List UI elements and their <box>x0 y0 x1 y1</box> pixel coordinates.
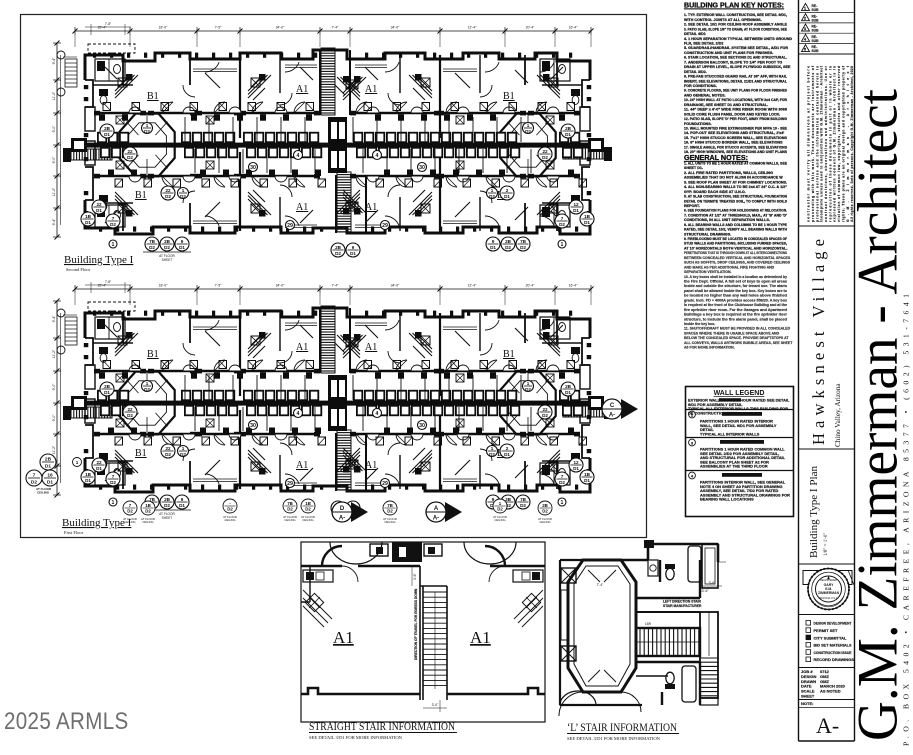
wing corner room partitions <box>95 317 125 339</box>
wing bath fixtures <box>99 347 108 354</box>
svg-text:2: 2 <box>506 188 509 193</box>
svg-text:9'-4": 9'-4" <box>52 315 56 323</box>
building plan: first floor <box>52 280 612 520</box>
svg-text:7B: 7B <box>520 239 527 244</box>
revision triangle 2 <box>802 14 810 21</box>
svg-text:D2: D2 <box>525 129 531 134</box>
svg-text:7. CONDITION AT 1/2" AT THRESH: 7. CONDITION AT 1/2" AT THRESHOLD, MAX.,… <box>684 213 787 217</box>
svg-text:D2: D2 <box>505 245 511 250</box>
svg-text:D2: D2 <box>110 222 116 227</box>
room: right wing octagonal foyer <box>500 372 555 435</box>
stair: right entry porch steps <box>563 406 604 417</box>
wall: A1 interior partitions <box>279 55 281 93</box>
tub lower <box>682 666 696 702</box>
svg-text:2B: 2B <box>45 457 52 463</box>
right kitchen <box>514 590 543 627</box>
svg-text:7. ANDERSON BALCONY, SLOPE TO: 7. ANDERSON BALCONY, SLOPE TO 1/4" PER F… <box>684 60 782 64</box>
svg-text:9. CONCRETE FLOORS, SEE UNIT P: 9. CONCRETE FLOORS, SEE UNIT PLANS FOR F… <box>684 89 787 93</box>
svg-text:STRUCTURAL DRAWINGS.: STRUCTURAL DRAWINGS. <box>684 232 731 236</box>
entry door arcs bottom <box>559 692 583 716</box>
svg-text:D2: D2 <box>164 503 170 508</box>
svg-text:incomplete unless used in conj: incomplete unless used in conjunction wi… <box>820 65 824 222</box>
svg-text:D1: D1 <box>565 132 571 137</box>
svg-text:1: 1 <box>146 123 149 128</box>
svg-text:CEILING: CEILING <box>494 518 505 522</box>
svg-text:structure, to include the fire: structure, to include the fire alarm pan… <box>684 317 787 321</box>
svg-text:11'-2": 11'-2" <box>52 349 56 358</box>
callout bubbles below left wing <box>145 237 159 251</box>
svg-text:AND GENERAL NOTES.: AND GENERAL NOTES. <box>684 93 726 97</box>
svg-text:A1: A1 <box>296 342 308 353</box>
svg-text:D2: D2 <box>287 507 293 512</box>
svg-text:D1: D1 <box>85 220 91 225</box>
wing bath fixtures <box>99 89 108 96</box>
stair: central lower ladder <box>337 172 351 232</box>
svg-text:Building Type I Plan: Building Type I Plan <box>808 465 820 558</box>
svg-text:SUB: SUB <box>812 8 820 12</box>
svg-text:D2: D2 <box>165 452 171 457</box>
left kitchen <box>303 590 332 627</box>
svg-text:18'-0": 18'-0" <box>159 284 168 288</box>
svg-text:PERMIT SET: PERMIT SET <box>814 628 839 633</box>
svg-text:panel shall be allowed inside: panel shall be allowed inside the key bo… <box>684 289 787 293</box>
fixtures: bath/laundry cores lower row <box>100 147 110 158</box>
svg-text:1B: 1B <box>145 503 151 508</box>
closet X boxes left <box>561 568 576 583</box>
svg-text:CEILING: CEILING <box>37 491 50 495</box>
wall: lower core band <box>97 433 143 436</box>
svg-text:9'-0": 9'-0" <box>52 125 56 133</box>
copyright fine print (rotated) <box>807 65 855 222</box>
porch end caps <box>63 148 71 162</box>
svg-text:D2: D2 <box>145 509 151 514</box>
svg-text:1: 1 <box>182 446 185 451</box>
svg-text:4: 4 <box>297 153 300 159</box>
svg-text:CEILING: CEILING <box>284 518 295 522</box>
svg-text:B1: B1 <box>503 349 515 360</box>
svg-text:D2: D2 <box>542 509 548 514</box>
interior arcs <box>342 566 358 582</box>
hatch marks small (X) <box>206 374 214 382</box>
svg-text:RATED, SEE DETAIL 10/2, VERIFY: RATED, SEE DETAIL 10/2, VERIFY ALL BEARI… <box>684 228 787 232</box>
svg-text:2. ALL FIRE RATED PARTITIONS,: 2. ALL FIRE RATED PARTITIONS, WALLS, CEI… <box>684 171 773 175</box>
svg-text:SUCH AS SOFFITS, DROP CEILINGS: SUCH AS SOFFITS, DROP CEILINGS, AND COVE… <box>684 261 791 265</box>
svg-text:D2: D2 <box>542 413 548 418</box>
svg-text:6. SEE FOUNDATION PLANS FOR HO: 6. SEE FOUNDATION PLANS FOR HOLDDOWNS AT… <box>684 209 787 213</box>
callout bubbles below right wing <box>516 237 530 251</box>
svg-text:11. SHUTOFF/DRAFT MUST BE PROV: 11. SHUTOFF/DRAFT MUST BE PROVIDED IN AL… <box>684 327 791 331</box>
svg-text:1: 1 <box>527 123 530 128</box>
svg-text:D2: D2 <box>227 507 233 512</box>
svg-text:SEE DETAIL 3/D1 FOR MORE INFOR: SEE DETAIL 3/D1 FOR MORE INFORMATION <box>567 736 661 741</box>
doors: swing arcs lower band <box>162 434 173 445</box>
svg-text:A1: A1 <box>365 342 377 353</box>
plan2 section marker D <box>351 502 368 522</box>
svg-text:3. SEE ROOF PLAN SHEET AT FOR: 3. SEE ROOF PLAN SHEET AT FOR CHIMNEY LO… <box>684 180 787 184</box>
svg-text:12'-4": 12'-4" <box>468 284 477 288</box>
svg-text:STRAIGHT STAIR INFORMATION: STRAIGHT STAIR INFORMATION <box>309 719 455 733</box>
svg-text:12: 12 <box>573 460 579 465</box>
svg-text:A1: A1 <box>296 202 308 213</box>
wall: plan outer bottom envelope <box>85 200 590 234</box>
fixtures: central plumbing shaft <box>328 375 347 431</box>
svg-text:1B: 1B <box>85 214 92 219</box>
svg-text:2B: 2B <box>505 497 512 502</box>
wall: right wing edge details <box>582 338 590 458</box>
dimension: top-left dashed patio <box>88 44 135 53</box>
stair: left entry porch steps <box>71 407 112 418</box>
svg-text:1. TYP. EXTERIOR WALL CONSTRUC: 1. TYP. EXTERIOR WALL CONSTRUCTION, SEE … <box>684 13 787 17</box>
svg-text:8. PRE-FAB STUCCOED GUARD RAIL: 8. PRE-FAB STUCCOED GUARD RAIL AT 36" AF… <box>684 75 788 79</box>
svg-text:A1: A1 <box>365 202 377 213</box>
tub upper <box>688 546 701 582</box>
svg-text:A1: A1 <box>365 84 377 95</box>
stair: central lower ladder <box>337 430 351 490</box>
kitchen: diagonal counters <box>248 333 264 349</box>
svg-text:D2: D2 <box>559 480 565 485</box>
svg-text:CEILING: CEILING <box>224 518 235 522</box>
svg-text:1: 1 <box>561 242 564 248</box>
svg-text:7'-5": 7'-5" <box>215 284 223 288</box>
svg-text:D1: D1 <box>47 479 53 485</box>
svg-text:11'-2": 11'-2" <box>52 187 56 196</box>
doors: unit entry arcs <box>205 62 219 72</box>
svg-text:D2: D2 <box>559 222 565 227</box>
svg-text:D2: D2 <box>31 479 37 485</box>
svg-text:2B: 2B <box>542 503 548 508</box>
svg-text:SOLID CORE FLUSH PANEL DOOR AN: SOLID CORE FLUSH PANEL DOOR AND KEYED LO… <box>684 112 780 116</box>
closet double lines <box>193 68 237 70</box>
svg-text:inside and outside the structu: inside and outside the structure, for te… <box>684 284 787 288</box>
wall: central spine <box>71 401 597 406</box>
svg-text:B1: B1 <box>135 190 147 201</box>
svg-text:FLR, SEE DETAIL 2/D2: FLR, SEE DETAIL 2/D2 <box>684 42 723 46</box>
stair landing top mass <box>392 542 422 562</box>
svg-text:16. 8" HIGH STUCCO BORDER WALL: 16. 8" HIGH STUCCO BORDER WALL, SEE ELEV… <box>684 141 783 145</box>
svg-text:D1: D1 <box>350 251 356 256</box>
svg-text:grade. Inch. PD + 4008A provid: grade. Inch. PD + 4008A provides access … <box>684 298 787 302</box>
svg-text:1: 1 <box>491 446 494 451</box>
svg-text:7: 7 <box>33 473 36 479</box>
svg-text:9: 9 <box>492 497 495 502</box>
svg-text:7B: 7B <box>520 497 527 502</box>
checkbox list <box>806 621 811 626</box>
svg-text:Building Type I: Building Type I <box>62 517 132 529</box>
svg-text:2B: 2B <box>164 497 171 502</box>
svg-text:D1: D1 <box>179 245 185 250</box>
svg-text:First Floor: First Floor <box>64 530 84 535</box>
closet double lines <box>193 326 237 328</box>
svg-text:1: 1 <box>561 500 564 506</box>
svg-text:22: 22 <box>127 407 133 412</box>
svg-text:22: 22 <box>127 149 133 154</box>
callout bubbles left wing <box>100 124 114 138</box>
svg-text:8. ALL BEARING WALLS AND COLUM: 8. ALL BEARING WALLS AND COLUMNS TO BE 1… <box>684 223 788 227</box>
furniture/door leaves in rooms <box>205 331 220 346</box>
doors: room arcs mid <box>183 85 195 97</box>
svg-text:D2: D2 <box>489 452 495 457</box>
svg-text:17. SINGLE ANGLE, FOR STUCCO A: 17. SINGLE ANGLE, FOR STUCCO ACCENTS, SE… <box>684 145 787 149</box>
building plan: second floor <box>52 22 612 262</box>
svg-text:ZIMMERMAN: ZIMMERMAN <box>818 591 840 595</box>
svg-text:STUD WALLS AND PARTITIONS, INC: STUD WALLS AND PARTITIONS, INCLUDING FUR… <box>684 242 787 246</box>
wall: B1 interior partitions <box>122 313 124 343</box>
svg-text:A1: A1 <box>470 628 491 647</box>
svg-text:2B: 2B <box>335 245 342 250</box>
svg-text:11. 44" DEEP x 4'-0" WIDE FIRE: 11. 44" DEEP x 4'-0" WIDE FIRE RISER ROO… <box>684 108 787 112</box>
svg-text:2B: 2B <box>565 384 572 389</box>
svg-text:ALL CONVEYS, WALLS ARTWORK BUB: ALL CONVEYS, WALLS ARTWORK BUBBLE AREAS,… <box>684 341 793 345</box>
dimension: left vertical <box>56 301 58 495</box>
svg-text:3'-0": 3'-0" <box>432 703 440 707</box>
svg-text:violation of common law, copyr: violation of common law, copyrights, sta… <box>837 66 841 222</box>
svg-text:CONDITIONS, IN ALL UNIT SEPARA: CONDITIONS, IN ALL UNIT SEPARATION WALLS… <box>684 218 770 222</box>
legend row 3 <box>689 439 696 446</box>
svg-text:10. 24" HIGH WALL AT PATIO LOC: 10. 24" HIGH WALL AT PATIO LOCATIONS, WI… <box>684 98 787 102</box>
svg-text:D2: D2 <box>127 413 133 418</box>
svg-text:PENETRATIONS THAT IS THROUGH D: PENETRATIONS THAT IS THROUGH DOWN AT ALL… <box>684 251 788 255</box>
svg-text:5. GUARDRAIL/HANDRAIL SYSTEM S: 5. GUARDRAIL/HANDRAIL SYSTEM SEE DETAIL,… <box>684 46 788 50</box>
callout bubbles right wing <box>561 124 575 138</box>
svg-text:10'-6": 10'-6" <box>700 589 709 593</box>
hatch marks small (X) <box>206 116 214 124</box>
porch end caps <box>63 406 71 420</box>
svg-text:7: 7 <box>112 216 115 221</box>
svg-text:2. SEE DETAIL 10/1 FOR CEILING: 2. SEE DETAIL 10/1 FOR CEILING ROOF ASSE… <box>684 23 788 27</box>
callout bubbles below left wing <box>145 495 159 509</box>
svg-text:D1: D1 <box>96 208 102 213</box>
plan2 section marker C <box>621 399 638 419</box>
top wall with entry arcs <box>301 546 545 566</box>
svg-text:7'-4": 7'-4" <box>332 284 340 288</box>
svg-text:1: 1 <box>112 242 115 248</box>
svg-text:D2: D2 <box>542 155 548 160</box>
svg-text:B1: B1 <box>503 91 515 102</box>
svg-text:20'-4": 20'-4" <box>526 284 535 288</box>
svg-text:D1: D1 <box>573 466 579 471</box>
svg-text:20'-4": 20'-4" <box>526 26 535 30</box>
straight stair detail box <box>301 542 545 722</box>
stair shaft walls <box>420 566 447 700</box>
room: left wing octagonal foyer <box>119 372 174 435</box>
svg-text:22: 22 <box>96 202 102 207</box>
callout bubbles right wing <box>561 382 575 396</box>
svg-text:16'-4": 16'-4" <box>569 284 578 288</box>
svg-text:D1: D1 <box>45 463 51 469</box>
interior diagonals <box>588 570 616 582</box>
svg-text:22: 22 <box>542 407 548 412</box>
svg-text:9'-0": 9'-0" <box>52 414 56 422</box>
svg-text:D2: D2 <box>144 129 150 134</box>
stair: left entry porch steps <box>71 149 112 160</box>
svg-text:29: 29 <box>287 223 293 229</box>
left counter appliances <box>303 570 333 582</box>
svg-text:D2: D2 <box>165 194 171 199</box>
room: right wing octagonal foyer <box>500 114 555 177</box>
svg-text:16'-4": 16'-4" <box>569 26 578 30</box>
doors: swing arcs upper band <box>162 360 173 371</box>
kitchen: diagonal counters <box>248 75 264 91</box>
stair treads <box>423 591 447 593</box>
svg-text:5. AT SLAB CONSTRUCTION, SEE S: 5. AT SLAB CONSTRUCTION, SEE STRUCTURAL … <box>684 195 787 199</box>
svg-text:7'-8": 7'-8" <box>105 280 111 284</box>
svg-text:34'-0": 34'-0" <box>276 284 285 288</box>
doors: white arcs on band walls <box>129 107 141 113</box>
revision triangle 5 <box>802 45 810 52</box>
svg-text:G.M. Zimmerman - Architect: G.M. Zimmerman - Architect <box>847 89 910 741</box>
svg-text:9'-4": 9'-4" <box>52 218 56 226</box>
svg-text:A-: A- <box>816 713 839 738</box>
svg-text:22: 22 <box>165 446 171 451</box>
svg-text:CEILING: CEILING <box>142 520 153 524</box>
svg-text:TYPICAL ALL INTERIOR WALLS: TYPICAL ALL INTERIOR WALLS <box>700 431 760 436</box>
svg-text:A-: A- <box>433 516 439 522</box>
dimension: far left block <box>63 314 77 316</box>
svg-text:7B: 7B <box>387 503 393 508</box>
fixtures: bath/laundry cores lower row <box>100 405 110 416</box>
svg-text:D2: D2 <box>127 509 133 514</box>
svg-text:DETAIL 4/D1: DETAIL 4/D1 <box>684 32 706 36</box>
callout bubbles center <box>294 409 303 418</box>
callout bubbles left wing <box>100 382 114 396</box>
svg-text:ARIZONA U.S.A.: ARIZONA U.S.A. <box>819 596 839 600</box>
doors: swing arcs upper band <box>162 102 173 113</box>
dimension: top overall <box>75 288 591 290</box>
svg-text:D1: D1 <box>104 132 110 137</box>
svg-text:AT 10' HORIZONTALS BOTH VERTIC: AT 10' HORIZONTALS BOTH VERTICAL AND HOR… <box>684 247 787 251</box>
svg-text:D2: D2 <box>525 387 531 392</box>
svg-text:29: 29 <box>382 481 388 487</box>
svg-text:C: C <box>610 403 615 409</box>
svg-text:1B: 1B <box>85 472 92 477</box>
svg-text:D2: D2 <box>520 503 526 508</box>
svg-text:7: 7 <box>112 474 115 479</box>
wall: upper core band <box>97 370 143 373</box>
svg-text:SUB: SUB <box>812 49 820 53</box>
svg-text:3'-6": 3'-6" <box>413 572 417 580</box>
svg-text:D1: D1 <box>584 478 590 483</box>
plan2 section marker A <box>445 502 462 522</box>
svg-text:9'-0": 9'-0" <box>52 156 56 164</box>
svg-text:4: 4 <box>297 411 300 417</box>
svg-text:1/8" = 1'-0": 1/8" = 1'-0" <box>824 533 829 556</box>
legend row 2 <box>689 411 696 418</box>
svg-text:SUB: SUB <box>812 18 820 22</box>
left unit walls <box>301 566 310 602</box>
svg-text:BELOW THE CONCEALED SPACE. PRO: BELOW THE CONCEALED SPACE. PROVIDE DRAFT… <box>684 336 789 340</box>
svg-text:AND MAKE AS PER ADDITIONAL FIR: AND MAKE AS PER ADDITIONAL FIRE FIGHTING… <box>684 265 775 269</box>
svg-text:34'-0": 34'-0" <box>391 26 400 30</box>
svg-text:34'-0": 34'-0" <box>276 26 285 30</box>
svg-text:22: 22 <box>96 460 102 465</box>
wall: lower core band <box>97 175 143 178</box>
svg-text:WITH CONTROL JOINTS AT ALL OPE: WITH CONTROL JOINTS AT ALL OPENINGS. <box>684 18 762 22</box>
svg-text:SHEET: SHEET <box>162 516 173 520</box>
svg-text:1B: 1B <box>584 214 591 219</box>
callout bubbles below right wing <box>516 495 530 509</box>
vanity upper <box>648 560 658 576</box>
svg-text:‘L’ STAIR INFORMATION: ‘L’ STAIR INFORMATION <box>567 720 677 734</box>
furniture/door leaves in rooms <box>205 73 220 88</box>
toilet lower <box>666 672 674 684</box>
fixtures: central plumbing shaft <box>328 117 347 173</box>
svg-text:9: 9 <box>181 497 184 502</box>
wall: upper core band <box>97 112 143 115</box>
doors: swing arcs lower band <box>162 176 173 187</box>
svg-text:13. WALL MOUNTED FIRE EXTINGUI: 13. WALL MOUNTED FIRE EXTINGUISHER PER N… <box>684 127 788 131</box>
svg-text:1: 1 <box>182 188 185 193</box>
doors: room arcs mid <box>183 343 195 355</box>
svg-text:WALL LEGEND: WALL LEGEND <box>714 390 765 397</box>
svg-text:Buildings a key box is require: Buildings a key box is required at the f… <box>684 313 788 317</box>
svg-text:DRAIN AT UPPER LEVEL, SLOPE PL: DRAIN AT UPPER LEVEL, SLOPE PLYWOOD SUBD… <box>684 65 791 69</box>
svg-text:CONSTRUCTION AND UNIT PLANS FO: CONSTRUCTION AND UNIT PLANS FOR FINISHES… <box>684 51 773 55</box>
L-stair outer walls <box>560 560 642 705</box>
svg-text:FOR CONDITIONS.: FOR CONDITIONS. <box>684 84 717 88</box>
wall: plan outer bottom envelope <box>85 458 590 492</box>
svg-text:STAIR MANUFACTURER: STAIR MANUFACTURER <box>663 604 702 608</box>
svg-text:D2: D2 <box>489 194 495 199</box>
svg-text:22: 22 <box>165 188 171 193</box>
wall: A1 interior partitions <box>279 313 281 351</box>
lower bath walls <box>636 662 700 705</box>
svg-text:fire sprinkler riser room. For: fire sprinkler riser room. For the Garag… <box>684 308 788 312</box>
svg-text:25'-4": 25'-4" <box>98 26 107 30</box>
svg-text:CEILING: CEILING <box>539 520 550 524</box>
L-stair octagonal foyer <box>568 560 636 692</box>
fixtures: band wall blobs <box>99 372 105 379</box>
svg-text:rights. These plans are an ori: rights. These plans are an original desi… <box>841 65 845 222</box>
plan2 bottom bubbles <box>123 501 137 515</box>
svg-text:7'-8": 7'-8" <box>105 22 111 26</box>
svg-text:FOUNDATIONS.: FOUNDATIONS. <box>684 122 712 126</box>
svg-text:18'-0": 18'-0" <box>159 26 168 30</box>
svg-text:9'-4": 9'-4" <box>52 57 56 65</box>
svg-text:DRAINAGE, SEE SHEET D1 AND STR: DRAINAGE, SEE SHEET D1 AND STRUCTURAL. <box>684 103 768 107</box>
svg-text:SHEET: SHEET <box>162 258 173 262</box>
architect seal <box>803 571 852 585</box>
revision triangle 3 <box>802 24 810 31</box>
svg-text:Chino Valley, Arizona: Chino Valley, Arizona <box>834 383 842 447</box>
landing dims right <box>702 585 722 587</box>
svg-text:1. ALL UNITS TO BE 1 HOUR RATE: 1. ALL UNITS TO BE 1 HOUR RATED AT COMMO… <box>684 162 788 166</box>
svg-text:2B: 2B <box>164 239 171 244</box>
wall: right wing edge details <box>582 80 590 200</box>
svg-text:D: D <box>340 506 345 512</box>
toilet upper <box>666 568 674 580</box>
svg-text:LEFT DIRECTION STAIR: LEFT DIRECTION STAIR <box>663 600 701 604</box>
svg-text:B1: B1 <box>147 349 159 360</box>
svg-text:DETAIL ON TERMITE TREATED SOIL: DETAIL ON TERMITE TREATED SOIL, TO COMPL… <box>684 199 788 203</box>
fixtures: end porch masses <box>71 138 87 152</box>
svg-text:D2: D2 <box>387 509 393 514</box>
svg-text:is required at the front of th: is required at the front of the Clubhous… <box>684 303 787 307</box>
dimension: top-left dashed patio <box>88 302 135 311</box>
wall: central spine <box>71 143 597 148</box>
wing corner room partitions <box>95 59 125 81</box>
svg-text:A-: A- <box>339 516 345 522</box>
svg-text:4: 4 <box>376 411 379 417</box>
svg-text:P.O. BOX 5402 • CAREFREE, ARIZ: P.O. BOX 5402 • CAREFREE, ARIZONA 85377 … <box>902 294 911 746</box>
svg-text:3. PATIO SLAB, SLOPE 1/8" TO D: 3. PATIO SLAB, SLOPE 1/8" TO DRAIN, AT F… <box>684 27 787 31</box>
svg-text:SEPARATION VENTILATION.: SEPARATION VENTILATION. <box>684 270 731 274</box>
svg-text:BETWEEN CONCEALED VERTICAL AND: BETWEEN CONCEALED VERTICAL AND HORIZONTA… <box>684 256 791 260</box>
svg-text:2B: 2B <box>104 126 111 131</box>
svg-text:GYP. BOARD EACH SIDE AT U.N.O.: GYP. BOARD EACH SIDE AT U.N.O. <box>684 190 746 194</box>
window jambs top/bottom <box>93 311 96 316</box>
svg-text:29: 29 <box>287 481 293 487</box>
closet clutter rows near band <box>103 361 111 369</box>
